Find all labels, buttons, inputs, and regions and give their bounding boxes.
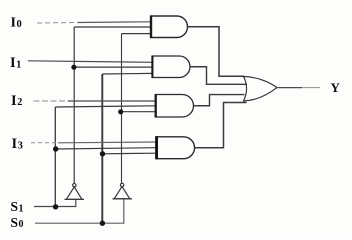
AND gate 4 input bar: [155, 136, 158, 159]
wire AND1 output to OR input 1: [188, 27, 245, 77]
AND gate 1 body: [151, 16, 188, 38]
junction dot S0' branch to AND3: [118, 109, 123, 114]
junction dot S1 branch to AND4: [53, 146, 58, 151]
node I1 input line: [28, 61, 152, 63]
wire AND3 output to OR input 3: [194, 95, 245, 106]
wire OR output to Y: [277, 87, 302, 89]
svg-text:I0: I0: [11, 16, 22, 31]
AND gate 1 input bar: [150, 16, 152, 38]
inverter 1 bubble: [73, 184, 76, 187]
wire S0 branch to AND2 bottom input: [102, 72, 152, 75]
svg-text:I1: I1: [10, 55, 21, 71]
junction dot S1' branch to AND2: [71, 65, 76, 70]
wire S0' bus vertical (inverter output up to AND1): [121, 34, 123, 184]
node I2 input line: [34, 100, 69, 102]
svg-text:Y: Y: [331, 80, 341, 95]
wire S1 branch to AND4 middle input: [56, 148, 156, 149]
node S0 input line: [35, 199, 124, 224]
wire S1 bus vertical (S1 up to AND3 middle): [54, 107, 56, 207]
node I0 input line: [37, 22, 78, 25]
wire S0 bus vertical (S0 up to AND2 bottom): [101, 74, 103, 223]
svg-text:S1: S1: [11, 199, 24, 214]
AND gate 3 input bar: [155, 94, 157, 117]
svg-text:I3: I3: [12, 136, 23, 152]
wire I0 to AND1 top input: [78, 21, 151, 24]
wire S0' branch to AND1 bottom input: [122, 33, 152, 35]
node I3 input line: [31, 142, 58, 144]
AND gate 4 body: [156, 137, 195, 159]
wire S1 branch to AND3 middle input: [55, 106, 155, 107]
wire S1' branch to AND2 middle input: [74, 66, 152, 68]
AND gate 2 input bar: [151, 56, 153, 78]
junction dot S0 line to bus: [100, 221, 105, 226]
wire S0 branch to AND4 bottom input: [103, 152, 157, 155]
inverter 1 (S1 complement) triangle: [66, 187, 82, 200]
OR gate body: [244, 77, 278, 102]
wire AND4 output to OR input 4: [195, 103, 247, 148]
node S1 input line: [34, 199, 76, 206]
junction dot S0 branch to AND4: [100, 151, 105, 156]
wire S0' branch to AND3 bottom input: [122, 111, 156, 113]
svg-text:S0: S0: [11, 215, 24, 230]
inverter 2 bubble: [120, 183, 123, 186]
AND gate 2 body: [152, 56, 190, 78]
junction dot S1 line to bus: [53, 204, 58, 209]
svg-text:I2: I2: [11, 93, 22, 109]
inverter 2 (S0 complement) triangle: [114, 187, 130, 199]
wire S1' bus vertical (inverter output up to AND1): [73, 27, 75, 184]
AND gate 3 body: [156, 95, 194, 118]
wire S1' branch to AND1 middle input: [74, 26, 151, 28]
wire AND2 output to OR input 2: [190, 67, 247, 85]
